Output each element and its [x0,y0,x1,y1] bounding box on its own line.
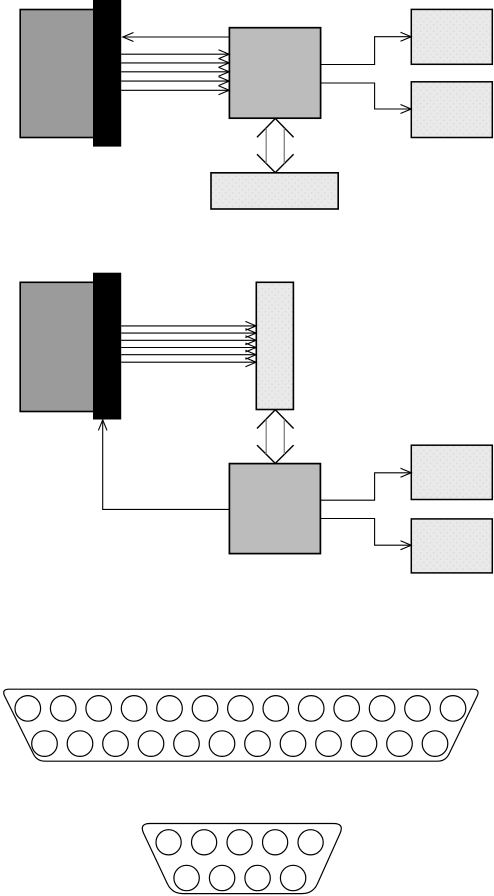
wire: feedback line controller to bar with up arrow [98,420,229,510]
wire: data line 5 bar to latch [121,350,256,359]
connector bus bar (black, section 1) [93,0,121,147]
wire: controller to peripheral box 2 [321,83,412,114]
connector bus bar (black, section 2) [93,273,121,420]
peripheral box 1 (stippled, top right) [411,9,492,64]
wire: data line 1 bar to controller [121,50,229,59]
peripheral box 3 (stippled, right, section 2) [411,445,492,499]
wire: controller to peripheral box 1 [321,32,412,64]
wire: data line 4 bar to controller [121,77,229,86]
register box (stippled, below controller, section 1) [211,173,338,209]
DB25 pins row 1 (pins 1-13) [15,696,466,722]
wire: data line 2 bar to controller [121,58,229,67]
DB25 connector shell [4,689,478,761]
latch box (tall stippled, section 2) [256,282,293,409]
controller block U1 (section 1 center) [229,28,320,119]
wire: controller to peripheral box 4 [320,519,411,550]
wire: data line 3 bar to latch [121,336,256,345]
wire: status line with left arrow into bar [123,33,230,42]
wire: data line 1 bar to latch [121,321,256,330]
double arrow (controller to register box, section 1) [257,119,294,173]
DB25 pins row 2 (pins 14-25) [32,731,448,757]
DB9 pins row 2 (pins 6-9) [174,865,306,890]
double arrow (latch to controller, section 2) [257,410,294,464]
peripheral box 4 (stippled, right, section 2) [411,519,492,573]
controller block U2 (section 2) [229,464,320,554]
wire: data line 4 bar to latch [121,343,256,352]
wire: data line 6 bar to latch [121,358,256,367]
wire: data line 3 bar to controller [121,67,229,76]
wire: data line 2 bar to latch [121,329,256,338]
DB9 connector shell [142,824,341,894]
wire: data line 5 bar to controller [121,86,229,95]
DB9 pins row 1 (pins 1-5) [156,830,323,855]
wire: controller to peripheral box 3 [320,468,411,500]
peripheral box 2 (stippled, right) [411,82,492,138]
device block (gray rectangle, section 2) [20,282,107,411]
device block (top-left gray rectangle, section 1) [20,10,107,138]
